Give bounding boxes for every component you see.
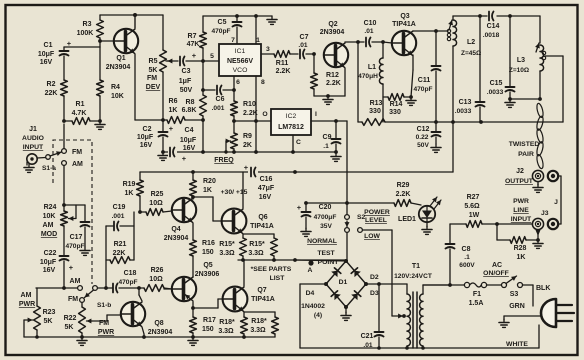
svg-text:Z=10Ω: Z=10Ω	[509, 67, 529, 74]
svg-text:C10: C10	[364, 20, 377, 27]
pin C label	[296, 139, 301, 146]
svg-text:5.6Ω: 5.6Ω	[464, 203, 480, 210]
svg-text:AM: AM	[21, 292, 32, 299]
svg-text:6: 6	[236, 79, 240, 86]
resistor R12	[311, 54, 341, 96]
svg-text:330: 330	[369, 108, 381, 115]
svg-text:LEVEL: LEVEL	[365, 217, 387, 224]
switch S3	[487, 276, 523, 298]
svg-text:LM7812: LM7812	[278, 124, 304, 131]
svg-text:16V: 16V	[40, 59, 53, 66]
wire WHITE	[506, 325, 539, 348]
svg-text:2N3904: 2N3904	[320, 29, 345, 36]
svg-text:Q1: Q1	[116, 55, 125, 62]
svg-text:VCO: VCO	[233, 67, 248, 74]
svg-text:.0033: .0033	[487, 89, 504, 96]
svg-text:1μF: 1μF	[179, 78, 192, 85]
svg-text:0.22: 0.22	[416, 134, 429, 141]
svg-text:GRN: GRN	[509, 303, 525, 310]
svg-text:J1: J1	[29, 126, 37, 133]
svg-text:2.2K: 2.2K	[396, 191, 411, 198]
node R24 top	[62, 203, 66, 207]
svg-text:FREQ: FREQ	[214, 157, 234, 164]
svg-text:TEST: TEST	[317, 250, 335, 257]
svg-text:PAIR: PAIR	[518, 151, 534, 158]
svg-text:10μF: 10μF	[137, 134, 154, 141]
resistor R18a	[218, 317, 247, 337]
svg-text:330: 330	[389, 109, 401, 116]
svg-text:+: +	[69, 263, 74, 272]
svg-text:C15: C15	[490, 80, 503, 87]
svg-text:4700μF: 4700μF	[314, 214, 337, 221]
wire IC2 input	[311, 119, 347, 123]
svg-text:600V: 600V	[459, 262, 475, 269]
svg-text:R2: R2	[47, 81, 56, 88]
pin 3 label	[266, 46, 270, 53]
wire bottom supply rail	[300, 346, 539, 350]
potentiometer R23	[24, 288, 56, 337]
wire Q5 collector to Q7 base	[191, 299, 223, 310]
wire Q7 emitter	[244, 312, 275, 317]
svg-text:6.8K: 6.8K	[182, 107, 197, 114]
svg-text:R8: R8	[186, 99, 195, 106]
wire J line	[554, 176, 561, 224]
svg-text:1K: 1K	[203, 187, 212, 194]
wire J1 to switch	[37, 157, 46, 160]
svg-text:+: +	[67, 39, 72, 48]
capacitor C2	[137, 124, 174, 152]
svg-text:(4): (4)	[314, 312, 322, 319]
wire Q6 emitter	[243, 234, 274, 238]
capacitor C22	[40, 226, 74, 288]
svg-text:7: 7	[231, 37, 235, 44]
transistor Q7	[223, 287, 275, 312]
resistor R19	[123, 172, 144, 212]
pin I label	[315, 111, 317, 118]
wire AC line	[423, 284, 464, 286]
svg-text:C17: C17	[70, 234, 83, 241]
svg-text:16V: 16V	[43, 267, 56, 274]
transistor Q1	[106, 15, 138, 71]
AC plug	[541, 299, 574, 327]
svg-text:3.3Ω: 3.3Ω	[219, 250, 235, 257]
transistor Q8	[121, 302, 173, 336]
ground under bridge	[341, 307, 351, 320]
ground under R22	[77, 337, 87, 345]
op-amp U1 IC1 NE566V box	[219, 44, 261, 76]
svg-text:L2: L2	[467, 39, 475, 46]
svg-text:+: +	[244, 163, 249, 172]
svg-text:C5: C5	[218, 19, 227, 26]
node test point A	[308, 260, 314, 274]
svg-text:FM: FM	[68, 296, 78, 303]
svg-text:1: 1	[256, 37, 260, 44]
svg-text:C16: C16	[260, 176, 273, 183]
label 1N4002	[301, 303, 325, 319]
svg-text:R4: R4	[111, 84, 120, 91]
wire R8 column	[201, 61, 205, 122]
svg-text:150: 150	[202, 249, 214, 256]
svg-text:16V: 16V	[140, 142, 153, 149]
node Q1 base junction	[98, 39, 102, 43]
ground under C20	[301, 228, 311, 236]
potentiometer R22	[64, 303, 107, 338]
capacitor C9	[323, 121, 341, 154]
wire Q5 emitter	[192, 276, 194, 278]
wire Q1 base	[100, 40, 114, 42]
capacitor C3	[166, 51, 219, 94]
svg-text:R18*: R18*	[219, 319, 235, 326]
svg-text:POWER: POWER	[364, 209, 390, 216]
svg-text:L1: L1	[368, 64, 376, 71]
svg-text:10Ω: 10Ω	[149, 200, 163, 207]
capacitor C1	[38, 39, 100, 80]
svg-text:.1: .1	[464, 254, 470, 261]
svg-text:C6: C6	[216, 96, 225, 103]
potentiometer R5 FM DEV	[146, 50, 173, 91]
svg-text:+: +	[169, 124, 174, 133]
dashed switch outline	[53, 140, 92, 284]
wire LOW	[363, 230, 393, 316]
svg-text:R29: R29	[397, 182, 410, 189]
svg-text:R17: R17	[203, 317, 216, 324]
jack J3	[532, 218, 543, 229]
svg-text:TIP41A: TIP41A	[392, 21, 416, 28]
svg-text:TIP41A: TIP41A	[250, 223, 274, 230]
pin 8 label	[261, 79, 265, 86]
svg-text:50V: 50V	[417, 142, 429, 149]
wire test point line	[295, 260, 347, 261]
svg-text:OUTPUT: OUTPUT	[505, 178, 534, 185]
svg-text:.0033: .0033	[455, 108, 472, 115]
resistor R10	[231, 101, 258, 133]
svg-text:+: +	[297, 203, 302, 212]
svg-text:R5: R5	[149, 58, 158, 65]
svg-text:S1-b: S1-b	[97, 302, 111, 309]
svg-text:150: 150	[202, 326, 214, 333]
transistor Q5	[172, 262, 220, 301]
svg-text:S1-a: S1-a	[42, 165, 56, 172]
diode D4	[306, 282, 346, 307]
resistor R21	[106, 212, 134, 288]
resistor R18b	[250, 317, 278, 337]
capacitor C17	[65, 205, 89, 250]
svg-text:C12: C12	[417, 126, 430, 133]
svg-text:R21: R21	[114, 241, 127, 248]
svg-text:R15*: R15*	[249, 241, 265, 248]
svg-text:D3: D3	[370, 290, 379, 297]
svg-text:C11: C11	[418, 77, 431, 84]
potentiometer R24	[41, 204, 85, 238]
capacitor C20	[297, 203, 337, 230]
wire R5 to C2	[161, 72, 165, 131]
svg-text:5K: 5K	[44, 318, 53, 325]
resistor R6	[163, 98, 203, 123]
svg-text:O: O	[262, 111, 267, 118]
svg-text:R12: R12	[326, 72, 339, 79]
svg-text:3: 3	[266, 46, 270, 53]
svg-text:50V: 50V	[180, 87, 193, 94]
resistor R26	[144, 267, 172, 291]
svg-text:C18: C18	[124, 270, 137, 277]
capacitor C8	[446, 224, 476, 287]
resistor R2	[45, 80, 68, 121]
label GRN	[509, 303, 525, 310]
diode D3	[344, 284, 379, 309]
svg-text:R27: R27	[467, 194, 480, 201]
resistor R13	[358, 42, 385, 125]
resistor R14	[383, 94, 413, 116]
wire Q8 emitter	[142, 327, 144, 337]
transformer T1	[394, 263, 450, 348]
capacitor C12	[416, 122, 441, 152]
ground under R17	[188, 337, 198, 345]
wire C5 top rail	[203, 14, 272, 18]
svg-text:R14: R14	[390, 101, 403, 108]
switch S1-a	[42, 149, 83, 172]
wire AM contact down	[63, 166, 65, 212]
svg-text:10K: 10K	[111, 93, 124, 100]
jack J2 OUTPUT	[505, 168, 544, 185]
wire top right rail	[453, 14, 540, 43]
svg-text:*SEE PARTS: *SEE PARTS	[251, 266, 292, 273]
plug at J3	[548, 219, 558, 229]
resistor R27	[450, 194, 532, 227]
svg-text:IC1: IC1	[235, 48, 246, 55]
wire C15 to L3	[510, 97, 542, 101]
wire IC2 output	[234, 76, 271, 152]
wire Q3 emitter	[411, 55, 413, 97]
svg-text:R26: R26	[151, 267, 164, 274]
svg-text:2K: 2K	[243, 142, 252, 149]
svg-text:16V: 16V	[183, 145, 196, 152]
pin 1 label	[256, 37, 260, 44]
wire to plug	[523, 285, 534, 306]
svg-text:22K: 22K	[113, 250, 126, 257]
label AC ON/OFF	[483, 262, 509, 277]
label AM PWR	[19, 292, 35, 308]
svg-text:R13: R13	[370, 100, 383, 107]
svg-text:R11: R11	[276, 60, 289, 67]
resistor R28	[497, 224, 540, 261]
wire Q7 collector	[243, 260, 245, 286]
wire L3 tap	[545, 56, 563, 122]
resistor R7	[187, 16, 207, 61]
svg-text:470pF: 470pF	[413, 86, 432, 93]
capacitor C10	[358, 20, 383, 47]
svg-text:Q7: Q7	[257, 287, 266, 294]
LED LED1	[398, 197, 441, 223]
svg-text:3.3Ω: 3.3Ω	[248, 250, 264, 257]
diode D2	[346, 261, 379, 286]
node Q2 base	[312, 52, 316, 56]
wire Q8 collector	[139, 288, 142, 301]
wire Q4 to Q6 base	[193, 197, 222, 221]
wire C22 to AM contact	[36, 286, 77, 290]
svg-text:C9: C9	[323, 134, 332, 141]
svg-text:INPUT: INPUT	[23, 144, 44, 151]
wire FM contact to bias node	[63, 124, 65, 149]
svg-text:Q4: Q4	[171, 226, 180, 233]
svg-text:C13: C13	[459, 99, 472, 106]
inductor L3	[509, 43, 546, 99]
transistor Q2	[320, 21, 348, 67]
svg-text:C7: C7	[300, 34, 309, 41]
transistor Q6	[222, 209, 274, 234]
svg-text:2N3904: 2N3904	[148, 329, 173, 336]
svg-text:R7: R7	[188, 33, 197, 40]
svg-text:R6: R6	[169, 98, 178, 105]
svg-text:22K: 22K	[45, 90, 58, 97]
svg-text:AM: AM	[43, 222, 54, 229]
svg-text:C21: C21	[361, 333, 374, 340]
svg-text:C20: C20	[319, 204, 332, 211]
wire pin1 riser	[255, 16, 257, 44]
svg-text:C19: C19	[113, 204, 126, 211]
ground under LED1	[422, 222, 432, 234]
svg-text:C1: C1	[44, 42, 53, 49]
capacitor C13	[455, 16, 485, 122]
svg-text:F1: F1	[473, 291, 481, 298]
resistor R15b	[248, 238, 277, 260]
svg-text:C: C	[296, 139, 301, 146]
capacitor C18	[98, 270, 144, 293]
wire IC2 input riser	[346, 121, 348, 203]
svg-text:35V: 35V	[320, 223, 332, 230]
ground under C17	[80, 247, 90, 255]
wire Q2 emitter	[314, 68, 345, 98]
svg-text:5: 5	[210, 53, 214, 60]
svg-text:D1: D1	[339, 279, 348, 286]
capacitor C6	[203, 86, 234, 113]
svg-text:FM: FM	[147, 75, 157, 82]
svg-text:5K: 5K	[149, 67, 158, 74]
node pin5	[201, 59, 205, 63]
svg-text:ON/OFF: ON/OFF	[483, 270, 509, 277]
capacitor C21	[361, 284, 384, 349]
transistor Q4	[164, 198, 196, 242]
wire Q5 base	[164, 288, 172, 290]
svg-text:R25: R25	[151, 191, 164, 198]
capacitor C5	[211, 16, 241, 44]
svg-text:10μF: 10μF	[180, 137, 197, 144]
plug at J2	[548, 171, 558, 181]
transistor Q3	[392, 13, 416, 55]
wire J3 tip	[536, 230, 541, 240]
wire bottom-left ground rail	[24, 335, 275, 339]
svg-text:.1: .1	[323, 143, 329, 150]
wire pin6 riser	[232, 76, 236, 101]
svg-text:C2: C2	[143, 126, 152, 133]
wire Q2 collector	[345, 40, 360, 44]
inductor L1	[358, 42, 383, 122]
pin O label	[262, 111, 267, 118]
resistor R1	[62, 101, 100, 124]
svg-text:5K: 5K	[65, 324, 74, 331]
svg-text:120V:24VCT: 120V:24VCT	[394, 273, 432, 280]
label TEST POINT	[317, 250, 339, 266]
svg-text:AUDIO: AUDIO	[22, 135, 44, 142]
wire GRN to ground	[499, 316, 541, 327]
wire +V line	[304, 201, 394, 205]
svg-text:R19: R19	[123, 181, 136, 188]
svg-text:2.2K: 2.2K	[276, 68, 291, 75]
svg-text:2.2K: 2.2K	[326, 80, 341, 87]
svg-text:PWR: PWR	[98, 329, 114, 336]
resistor R4	[97, 47, 124, 121]
resistor R8	[182, 95, 207, 152]
svg-text:.0018: .0018	[483, 32, 500, 39]
wire IC2 common	[292, 135, 294, 152]
ground under J2	[533, 182, 543, 193]
svg-text:FM: FM	[99, 320, 109, 327]
svg-text:R23: R23	[43, 309, 56, 316]
wire top-left rail	[100, 13, 163, 17]
svg-text:.01: .01	[298, 42, 307, 49]
svg-text:1N4002: 1N4002	[301, 303, 325, 310]
svg-text:MOD: MOD	[41, 231, 57, 238]
ground under R4/R1	[95, 119, 105, 129]
svg-text:.001: .001	[212, 105, 225, 112]
svg-text:R16: R16	[202, 240, 215, 247]
svg-text:47μF: 47μF	[258, 185, 275, 192]
wire +30 RF rail	[385, 120, 563, 124]
svg-text:R10: R10	[243, 101, 256, 108]
resistor R3	[77, 15, 104, 47]
resistor R11	[261, 51, 298, 75]
svg-text:470pF: 470pF	[211, 28, 230, 35]
svg-text:Q3: Q3	[400, 13, 409, 20]
node Q3 base	[381, 40, 392, 44]
diode D1	[326, 259, 348, 286]
ground under R14	[406, 97, 416, 105]
svg-text:FM: FM	[72, 149, 82, 156]
svg-text:C4: C4	[185, 127, 194, 134]
resistor R25	[138, 191, 172, 215]
svg-text:R28: R28	[514, 245, 527, 252]
svg-text:R3: R3	[83, 21, 92, 28]
label BLK	[536, 285, 550, 292]
capacitor C14	[483, 12, 500, 40]
wire Q6 collector	[242, 172, 244, 208]
svg-text:R18*: R18*	[251, 318, 267, 325]
svg-text:J: J	[554, 199, 558, 206]
svg-text:T1: T1	[412, 263, 420, 270]
svg-text:1K: 1K	[517, 254, 526, 261]
svg-text:R1: R1	[76, 101, 85, 108]
svg-text:INPUT: INPUT	[511, 216, 532, 223]
svg-text:1W: 1W	[469, 212, 480, 219]
capacitor C19	[106, 204, 134, 231]
wire modulated supply node	[238, 258, 347, 262]
svg-text:PWR: PWR	[19, 301, 35, 308]
resistor R15a	[219, 238, 246, 260]
svg-text:D2: D2	[370, 274, 379, 281]
ground under C2	[158, 150, 168, 160]
svg-text:R20: R20	[203, 178, 216, 185]
capacitor C11	[413, 29, 440, 122]
svg-text:1K: 1K	[169, 107, 178, 114]
ground at top rail	[267, 16, 277, 24]
ground under C15	[505, 99, 515, 107]
svg-text:100K: 100K	[77, 30, 94, 37]
label NORMAL	[307, 238, 337, 245]
svg-text:R22: R22	[64, 315, 77, 322]
wire bridge right	[366, 282, 407, 286]
svg-text:.001: .001	[112, 213, 125, 220]
svg-text:4.7K: 4.7K	[72, 110, 87, 117]
resistor R29	[394, 182, 421, 206]
